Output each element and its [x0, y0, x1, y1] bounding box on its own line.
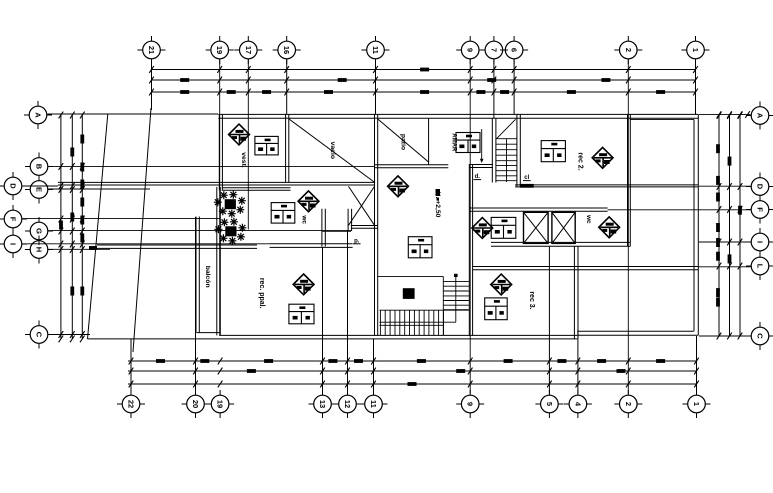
- svg-text:vacio: vacio: [329, 142, 336, 159]
- grid bubble axis 9 (bottom): [456, 390, 484, 418]
- axis H line: [49, 248, 111, 250]
- dimension text blob: [601, 78, 610, 82]
- left dimension line 1: [60, 114, 62, 339]
- balcony bottom edge: [197, 332, 221, 334]
- grid bubble axis C (left): [25, 321, 53, 349]
- dimension text blob: [354, 359, 363, 363]
- svg-text:21: 21: [147, 46, 156, 54]
- dimension text blob: [716, 238, 720, 247]
- grid bubble axis 21 (top): [138, 36, 166, 64]
- tree 2: [214, 218, 246, 245]
- grid bubble axis 2 (top): [614, 36, 642, 64]
- tree 1: [214, 191, 246, 218]
- dimension text blob: [716, 176, 720, 185]
- dimension text blob: [247, 369, 256, 373]
- dimension text blob: [80, 287, 84, 296]
- grid bubble axis H (left): [25, 236, 53, 264]
- dimension text blob: [716, 223, 720, 232]
- grid bubble axis A (left): [24, 101, 52, 129]
- dimension text blob: [738, 206, 742, 215]
- svg-text:rec 2.: rec 2.: [576, 152, 583, 170]
- axis 11 stem: [375, 60, 377, 115]
- axis C stem (right): [699, 335, 751, 337]
- svg-text:12: 12: [343, 400, 352, 408]
- wall axis D horizontal: [58, 182, 375, 185]
- dimension text blob: [89, 246, 97, 250]
- stair upper center line: [506, 139, 508, 182]
- grid bubble axis F (left): [0, 205, 27, 233]
- dimension text blob: [716, 144, 720, 153]
- right dimension line 3: [739, 115, 741, 337]
- svg-text:F: F: [9, 217, 18, 222]
- grid bubble axis C (right): [746, 322, 773, 350]
- svg-text:11: 11: [371, 46, 380, 54]
- axis 2 line: [627, 60, 629, 394]
- axis 17 line: [247, 60, 249, 230]
- svg-text:I: I: [9, 243, 18, 245]
- svg-text:L: L: [756, 264, 765, 269]
- axis 6 stem: [513, 60, 515, 115]
- wall wc-row south: [491, 242, 630, 246]
- schedule table (vest): [255, 136, 278, 155]
- left dim end ticks: [59, 336, 64, 343]
- axis 7 stem: [493, 60, 495, 119]
- dimension text blob: [80, 180, 84, 189]
- grid bubble axis I (left): [0, 230, 27, 258]
- schedule table (hall): [408, 237, 432, 258]
- axis 20 stem: [195, 217, 197, 394]
- grid bubble axis 20 (bottom): [182, 390, 210, 418]
- wall balcony west: [196, 217, 199, 333]
- axis A line (left): [48, 113, 219, 115]
- left dimension line 2: [71, 114, 73, 339]
- svg-text:rec 3.: rec 3.: [528, 291, 535, 309]
- axis A stem ticks: [717, 111, 722, 118]
- dimension text blob: [728, 254, 732, 263]
- axis I line: [23, 243, 270, 245]
- axis 9 line: [469, 60, 471, 394]
- schedule table (rec 2): [541, 141, 565, 162]
- wall segment south of wc-left: [323, 230, 352, 232]
- grid bubble axis B (left): [25, 153, 53, 181]
- dimension text blob: [180, 78, 189, 82]
- grid bubble axis 16 (top): [273, 36, 301, 64]
- svg-text:B: B: [35, 164, 44, 170]
- wall wc-left west stub: [322, 209, 325, 247]
- svg-text:5: 5: [545, 402, 554, 406]
- svg-text:wc: wc: [300, 214, 307, 224]
- right dimension ticks: [717, 112, 722, 119]
- room tag diamond (hall): [388, 176, 409, 197]
- wall stair east: [517, 114, 520, 186]
- dimension text blob: [656, 359, 665, 363]
- axis 1 bottom stem: [696, 336, 698, 394]
- room tag diamond (rec ppal): [293, 274, 314, 295]
- wall balcony east: [217, 187, 221, 335]
- shaft x-box 3: [552, 212, 575, 243]
- dimension text blob: [716, 288, 720, 297]
- wall axis D east segment: [515, 185, 698, 187]
- wall vest west / axis19: [219, 114, 222, 190]
- axis 11 bottom stem: [373, 339, 375, 394]
- dimension text blob: [180, 90, 189, 94]
- dimension text blob: [324, 90, 333, 94]
- dimension text blob: [70, 148, 74, 157]
- left dimension line 3: [81, 114, 83, 339]
- wall rec3 east: [574, 246, 578, 339]
- dimension text blob: [70, 213, 74, 222]
- svg-text:D: D: [9, 183, 18, 189]
- svg-text:9: 9: [466, 402, 475, 406]
- dimension text blob: [716, 193, 720, 202]
- svg-text:H: H: [35, 247, 44, 252]
- dimension text blob: [716, 298, 720, 307]
- grid bubble axis 6 (top): [500, 36, 528, 64]
- axis I stem (right): [699, 241, 751, 243]
- stair lower vertical treads: [380, 310, 443, 335]
- stair lower mid line: [454, 274, 458, 322]
- label d.: [474, 174, 482, 180]
- dimension text blob: [557, 359, 566, 363]
- grid bubble axis 7 (top): [480, 36, 508, 64]
- top dimension line 1: [152, 69, 696, 71]
- axis 19 line: [219, 60, 221, 337]
- grid bubble axis 2 (bottom): [614, 390, 642, 418]
- svg-text:16: 16: [282, 46, 291, 54]
- label cl: [523, 175, 531, 181]
- stair upper (treads): [496, 139, 517, 181]
- axis 22 stem: [130, 339, 132, 394]
- grid bubble axis 1 (bottom): [683, 390, 711, 418]
- svg-text:1: 1: [691, 48, 700, 52]
- room tag diamond (wc left): [298, 191, 319, 212]
- dimension text blob: [476, 90, 485, 94]
- svg-text:C: C: [35, 332, 44, 338]
- grid bubble axis F (right): [746, 196, 773, 224]
- top dimension ticks: [149, 66, 154, 73]
- wall patio east: [428, 118, 430, 165]
- svg-text:2: 2: [624, 48, 633, 52]
- lot boundary slanted line east: [133, 108, 151, 352]
- outer wall bottom west part: [220, 334, 577, 336]
- bottom dimension ticks: [129, 358, 134, 365]
- label p.: [353, 239, 361, 245]
- dimension text blob: [80, 216, 84, 225]
- svg-text:balcón: balcón: [204, 266, 211, 288]
- bottom dimension line 2: [128, 370, 697, 372]
- dimension text blob: [262, 90, 271, 94]
- axis 5 stem: [548, 246, 550, 394]
- grid bubble axis 11 (bottom): [360, 390, 388, 418]
- dimension text blob: [408, 382, 417, 386]
- bottom dimension line 1: [128, 360, 697, 362]
- svg-text:13: 13: [318, 400, 327, 408]
- dimension text blob: [487, 78, 496, 82]
- room tag diamond (rec 3): [491, 274, 512, 295]
- dimension text blob: [417, 359, 426, 363]
- dimension text blob: [264, 359, 273, 363]
- axis F line: [23, 218, 220, 220]
- dimension text blob: [420, 68, 429, 72]
- stair lower return line: [380, 321, 456, 323]
- dimension text blob: [59, 221, 63, 230]
- wall rec3 north: [473, 267, 699, 270]
- dimension text blob: [420, 90, 429, 94]
- elevator filled block: [403, 288, 415, 299]
- grid bubble axis E (left): [25, 176, 53, 204]
- grid bubble axis A (right): [746, 102, 773, 130]
- svg-text:A: A: [756, 113, 765, 119]
- svg-text:C: C: [756, 333, 765, 339]
- stair lower horizontal treads: [443, 282, 469, 310]
- axis 1 line: [695, 60, 697, 115]
- axis A stem (right): [699, 114, 751, 116]
- grid bubble axis G (left): [25, 217, 53, 245]
- svg-text:11: 11: [369, 400, 378, 408]
- grid bubble axis 1 (top): [682, 36, 710, 64]
- stair lower landing edge: [380, 324, 444, 326]
- stair lower top line: [378, 275, 443, 277]
- right dimension line 2: [729, 115, 731, 337]
- right dimension line 1: [718, 115, 720, 337]
- dimension text blob: [597, 359, 606, 363]
- axis 4 stem: [577, 331, 579, 394]
- svg-text:A: A: [34, 112, 43, 118]
- axis F line (right): [608, 209, 751, 211]
- svg-text:F: F: [756, 207, 765, 212]
- dimension text blob: [328, 359, 337, 363]
- axis C stem: [49, 334, 91, 336]
- vacio diagonal: [289, 119, 375, 183]
- svg-text:19: 19: [215, 46, 224, 54]
- svg-text:vest.: vest.: [240, 152, 247, 168]
- svg-text:AMAR: AMAR: [451, 133, 457, 152]
- svg-text:1: 1: [692, 402, 701, 406]
- wall xbox1 south: [351, 226, 378, 229]
- grid bubble axis D (left): [0, 172, 27, 200]
- dimension text blob: [70, 287, 74, 296]
- inner wall right: [693, 120, 695, 332]
- schedule table (wc left): [271, 203, 295, 224]
- wall axis9 vertical: [469, 164, 472, 336]
- svg-text:22: 22: [127, 400, 136, 408]
- axis E line: [49, 188, 151, 190]
- grid bubble axis 19 (bottom): [206, 390, 234, 418]
- wall patio south: [375, 165, 448, 168]
- stair direction arrow: [480, 129, 484, 163]
- grid bubble axis L (right): [746, 252, 773, 280]
- room tag diamond (rec 2): [592, 147, 613, 168]
- axis 13 stem: [322, 247, 324, 394]
- dimension text blob: [504, 359, 513, 363]
- svg-text:I: I: [756, 241, 765, 243]
- stair upper break diagonal: [497, 119, 516, 138]
- dimension text blob: [456, 369, 465, 373]
- axis B line: [49, 166, 375, 168]
- dimension text blob: [617, 369, 626, 373]
- outer wall bottom east part: [577, 330, 694, 332]
- dimension text blob: [728, 157, 732, 166]
- svg-text:7: 7: [489, 48, 498, 52]
- dimension text blob: [500, 90, 509, 94]
- room NE inner top line: [630, 119, 694, 121]
- grid bubble axis 22 (bottom): [117, 390, 145, 418]
- grid bubble axis 12 (bottom): [334, 390, 362, 418]
- dimension text blob: [338, 78, 347, 82]
- stair lower tread top edge: [380, 309, 469, 311]
- svg-text:20: 20: [191, 400, 200, 408]
- schedule table (rec ppal): [289, 304, 314, 324]
- dimension text blob: [567, 90, 576, 94]
- axis L line (right): [698, 266, 750, 268]
- svg-text:wc: wc: [585, 214, 592, 224]
- axis D line (right): [699, 185, 751, 187]
- axis 12 stem: [347, 231, 349, 394]
- svg-text:6: 6: [510, 48, 519, 52]
- dimension text blob: [656, 90, 665, 94]
- dimension text blob: [716, 252, 720, 261]
- grid bubble axis 19 (top): [206, 36, 234, 64]
- wall fill dark segment: [520, 184, 534, 188]
- shaft x-box 1: [349, 186, 375, 225]
- dimension text blob: [80, 163, 84, 172]
- schedule table (wc center): [491, 217, 516, 238]
- dimension text blob: [80, 234, 84, 243]
- wall wc-left east stub: [348, 209, 352, 231]
- outer wall right: [697, 114, 699, 335]
- top dimension line 2: [152, 79, 696, 81]
- patio diagonal: [378, 119, 428, 162]
- room tag diamond (vest): [229, 124, 250, 145]
- grid bubble axis 17 (top): [234, 36, 262, 64]
- bottom dimension line 3: [128, 383, 697, 385]
- lot boundary slanted line west: [88, 114, 108, 339]
- dimension text blob: [80, 198, 84, 207]
- axis 16 stem: [286, 60, 288, 115]
- dimension text blob: [80, 135, 84, 144]
- axis G line: [49, 230, 353, 232]
- wall axis11 vertical: [375, 114, 378, 336]
- svg-text:17: 17: [244, 46, 253, 54]
- axis 21 stem: [151, 60, 153, 111]
- svg-text:9: 9: [466, 48, 475, 52]
- wall wc-row north: [469, 208, 607, 211]
- grid bubble axis 9 (top): [456, 36, 484, 64]
- wall closet-d north: [469, 165, 493, 168]
- wall stair west: [492, 119, 496, 183]
- svg-text:D: D: [756, 184, 765, 190]
- svg-text:G: G: [35, 228, 44, 234]
- outer wall top: [218, 114, 698, 118]
- dimension text blob: [227, 90, 236, 94]
- dimension text blob: [156, 359, 165, 363]
- wall jog below vest: [222, 188, 291, 191]
- shaft x-box 2: [524, 212, 549, 243]
- room tag diamond (wc center): [472, 218, 493, 239]
- svg-text:rec. ppal.: rec. ppal.: [258, 278, 265, 309]
- stair lower east boundary: [442, 276, 444, 335]
- wall axis2 vertical: [628, 114, 631, 246]
- grid bubble axis 13 (bottom): [309, 390, 337, 418]
- schedule table (amar): [456, 133, 480, 153]
- grid bubble axis I (right): [746, 228, 773, 256]
- top dimension line 3: [152, 91, 696, 93]
- grid bubble axis 5 (bottom): [535, 390, 563, 418]
- small fixture glyph: [436, 189, 441, 201]
- grid bubble axis 11 (top): [362, 36, 390, 64]
- grid bubble axis 4 (bottom): [564, 390, 592, 418]
- grid bubble axis D (right): [746, 173, 773, 201]
- svg-text:19: 19: [216, 400, 225, 408]
- room tag diamond (wc right): [599, 217, 620, 238]
- wall wc-left south: [270, 244, 353, 248]
- svg-text:E: E: [35, 187, 44, 192]
- wall under trees (axis I): [97, 245, 257, 248]
- schedule table (rec 3): [485, 298, 508, 320]
- axis D stem: [23, 185, 59, 187]
- svg-text:2: 2: [624, 402, 633, 406]
- wall vest east: [286, 114, 289, 182]
- left dimension ticks: [59, 112, 64, 119]
- dimension text blob: [200, 359, 209, 363]
